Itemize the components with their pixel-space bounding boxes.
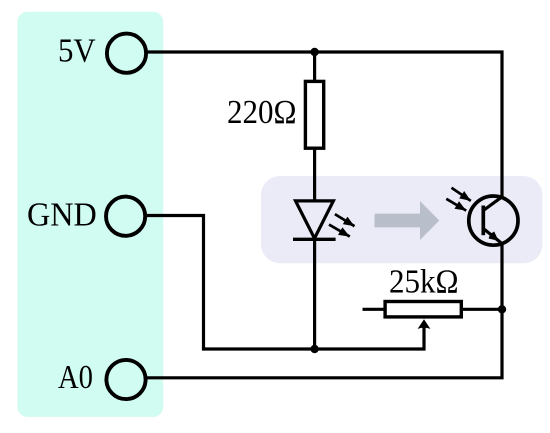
LED D1 triangle <box>296 201 334 238</box>
terminal GND <box>106 197 145 236</box>
phototransistor Q1 base bar <box>481 206 485 236</box>
wire 5V terminal to top-right corner down to phototransistor collector <box>146 52 502 197</box>
terminal A0 <box>106 360 145 399</box>
svg-text:A0: A0 <box>58 359 93 396</box>
wire resistor bottom lead to LED anode <box>313 149 316 202</box>
potentiometer RV1 wiper arrowhead <box>418 319 431 329</box>
wire GND terminal right, down, and right to potentiometer wiper <box>146 216 424 350</box>
optical coupling highlight <box>261 176 543 263</box>
phototransistor Q1 emitter stroke <box>483 229 502 244</box>
svg-text:220Ω: 220Ω <box>227 94 297 131</box>
LED emission arrow lower <box>329 225 350 237</box>
gray coupling arrow <box>375 201 440 240</box>
pin panel background <box>17 12 163 417</box>
svg-text:25kΩ: 25kΩ <box>389 263 459 300</box>
junction dot at potentiometer / right rail <box>498 305 506 313</box>
LED D1 cathode bar <box>293 238 336 241</box>
phototransistor Q1 collector stroke <box>483 197 502 211</box>
phototransistor Q1 envelope circle <box>469 196 518 245</box>
phototransistor Q1 emitter arrowhead <box>489 232 499 241</box>
wire resistor top lead from junction <box>313 52 316 82</box>
terminal 5V <box>107 34 146 73</box>
potentiometer RV1 right lead wire <box>463 308 503 311</box>
svg-text:5V: 5V <box>58 33 96 70</box>
wire LED cathode down to bottom junction <box>313 239 316 349</box>
junction dot at 5V rail / resistor <box>310 48 318 56</box>
light arrow into phototransistor upper <box>452 188 471 201</box>
light arrow into phototransistor lower <box>446 199 466 211</box>
junction dot at GND rail / LED cathode <box>310 345 318 353</box>
potentiometer RV1 body <box>385 302 461 317</box>
svg-text:GND: GND <box>27 197 97 234</box>
LED emission arrow upper <box>335 214 355 226</box>
potentiometer RV1 left stub wire <box>363 308 385 311</box>
resistor R1 body <box>305 81 323 148</box>
wire A0 terminal right and up to phototransistor emitter <box>146 244 502 378</box>
